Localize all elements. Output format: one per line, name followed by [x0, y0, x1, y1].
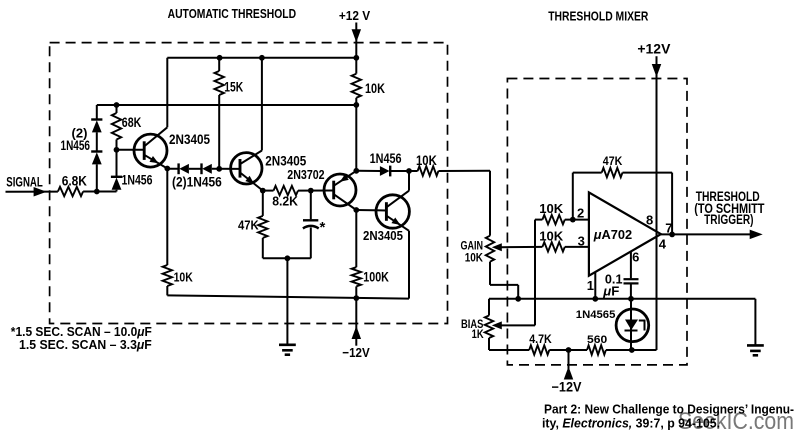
svg-text:1: 1	[587, 278, 594, 293]
svg-text:10K: 10K	[416, 153, 437, 168]
svg-text:Part 2: New Challenge to Desig: Part 2: New Challenge to Designers’ Inge…	[544, 401, 794, 416]
svg-text:6: 6	[632, 249, 639, 264]
svg-text:8.2K: 8.2K	[272, 194, 298, 208]
svg-text:8: 8	[646, 212, 653, 227]
svg-text:560: 560	[587, 334, 607, 346]
svg-text:100K: 100K	[363, 269, 389, 284]
svg-text:7: 7	[665, 220, 672, 235]
svg-text:(2)1N456: (2)1N456	[172, 174, 222, 189]
svg-text:47K: 47K	[603, 154, 623, 168]
svg-text:10K: 10K	[539, 229, 563, 244]
svg-text:μF: μF	[602, 284, 619, 299]
svg-text:THRESHOLD MIXER: THRESHOLD MIXER	[548, 10, 648, 24]
svg-text:1N456: 1N456	[61, 138, 91, 153]
svg-text:μA702: μA702	[593, 227, 632, 242]
svg-text:2N3405: 2N3405	[265, 154, 306, 169]
svg-text:2: 2	[577, 206, 584, 221]
svg-text:1K: 1K	[472, 327, 484, 341]
svg-text:15K: 15K	[224, 78, 243, 94]
svg-text:ity, Electronics, 39:7, p 94-1: ity, Electronics, 39:7, p 94-105.	[542, 415, 720, 430]
svg-text:10K: 10K	[365, 80, 385, 96]
svg-text:2N3702: 2N3702	[287, 168, 324, 182]
svg-text:+12 V: +12 V	[339, 8, 370, 23]
svg-text:AUTOMATIC THRESHOLD: AUTOMATIC THRESHOLD	[168, 7, 297, 21]
svg-text:1.5 SEC. SCAN – 3.3μF: 1.5 SEC. SCAN – 3.3μF	[19, 337, 152, 352]
svg-text:10K: 10K	[465, 251, 484, 265]
svg-text:1N4565: 1N4565	[576, 309, 616, 321]
svg-text:*: *	[320, 219, 326, 236]
svg-text:SIGNAL: SIGNAL	[6, 173, 43, 189]
svg-text:3: 3	[578, 233, 585, 248]
svg-text:10K: 10K	[174, 270, 194, 285]
svg-text:2N3405: 2N3405	[363, 228, 403, 243]
svg-text:6.8K: 6.8K	[62, 172, 87, 188]
svg-text:4: 4	[659, 237, 667, 252]
svg-text:2N3405: 2N3405	[169, 132, 210, 147]
svg-text:+12V: +12V	[637, 42, 670, 57]
svg-text:TRIGGER): TRIGGER)	[704, 212, 753, 227]
svg-text:10K: 10K	[539, 201, 563, 216]
svg-text:1N456: 1N456	[122, 172, 153, 187]
svg-text:4.7K: 4.7K	[529, 332, 552, 346]
svg-text:68K: 68K	[122, 115, 142, 130]
svg-text:1N456: 1N456	[370, 151, 402, 166]
svg-text:47K: 47K	[238, 218, 259, 233]
svg-text:−12V: −12V	[342, 345, 370, 360]
svg-text:−12V: −12V	[552, 380, 582, 395]
